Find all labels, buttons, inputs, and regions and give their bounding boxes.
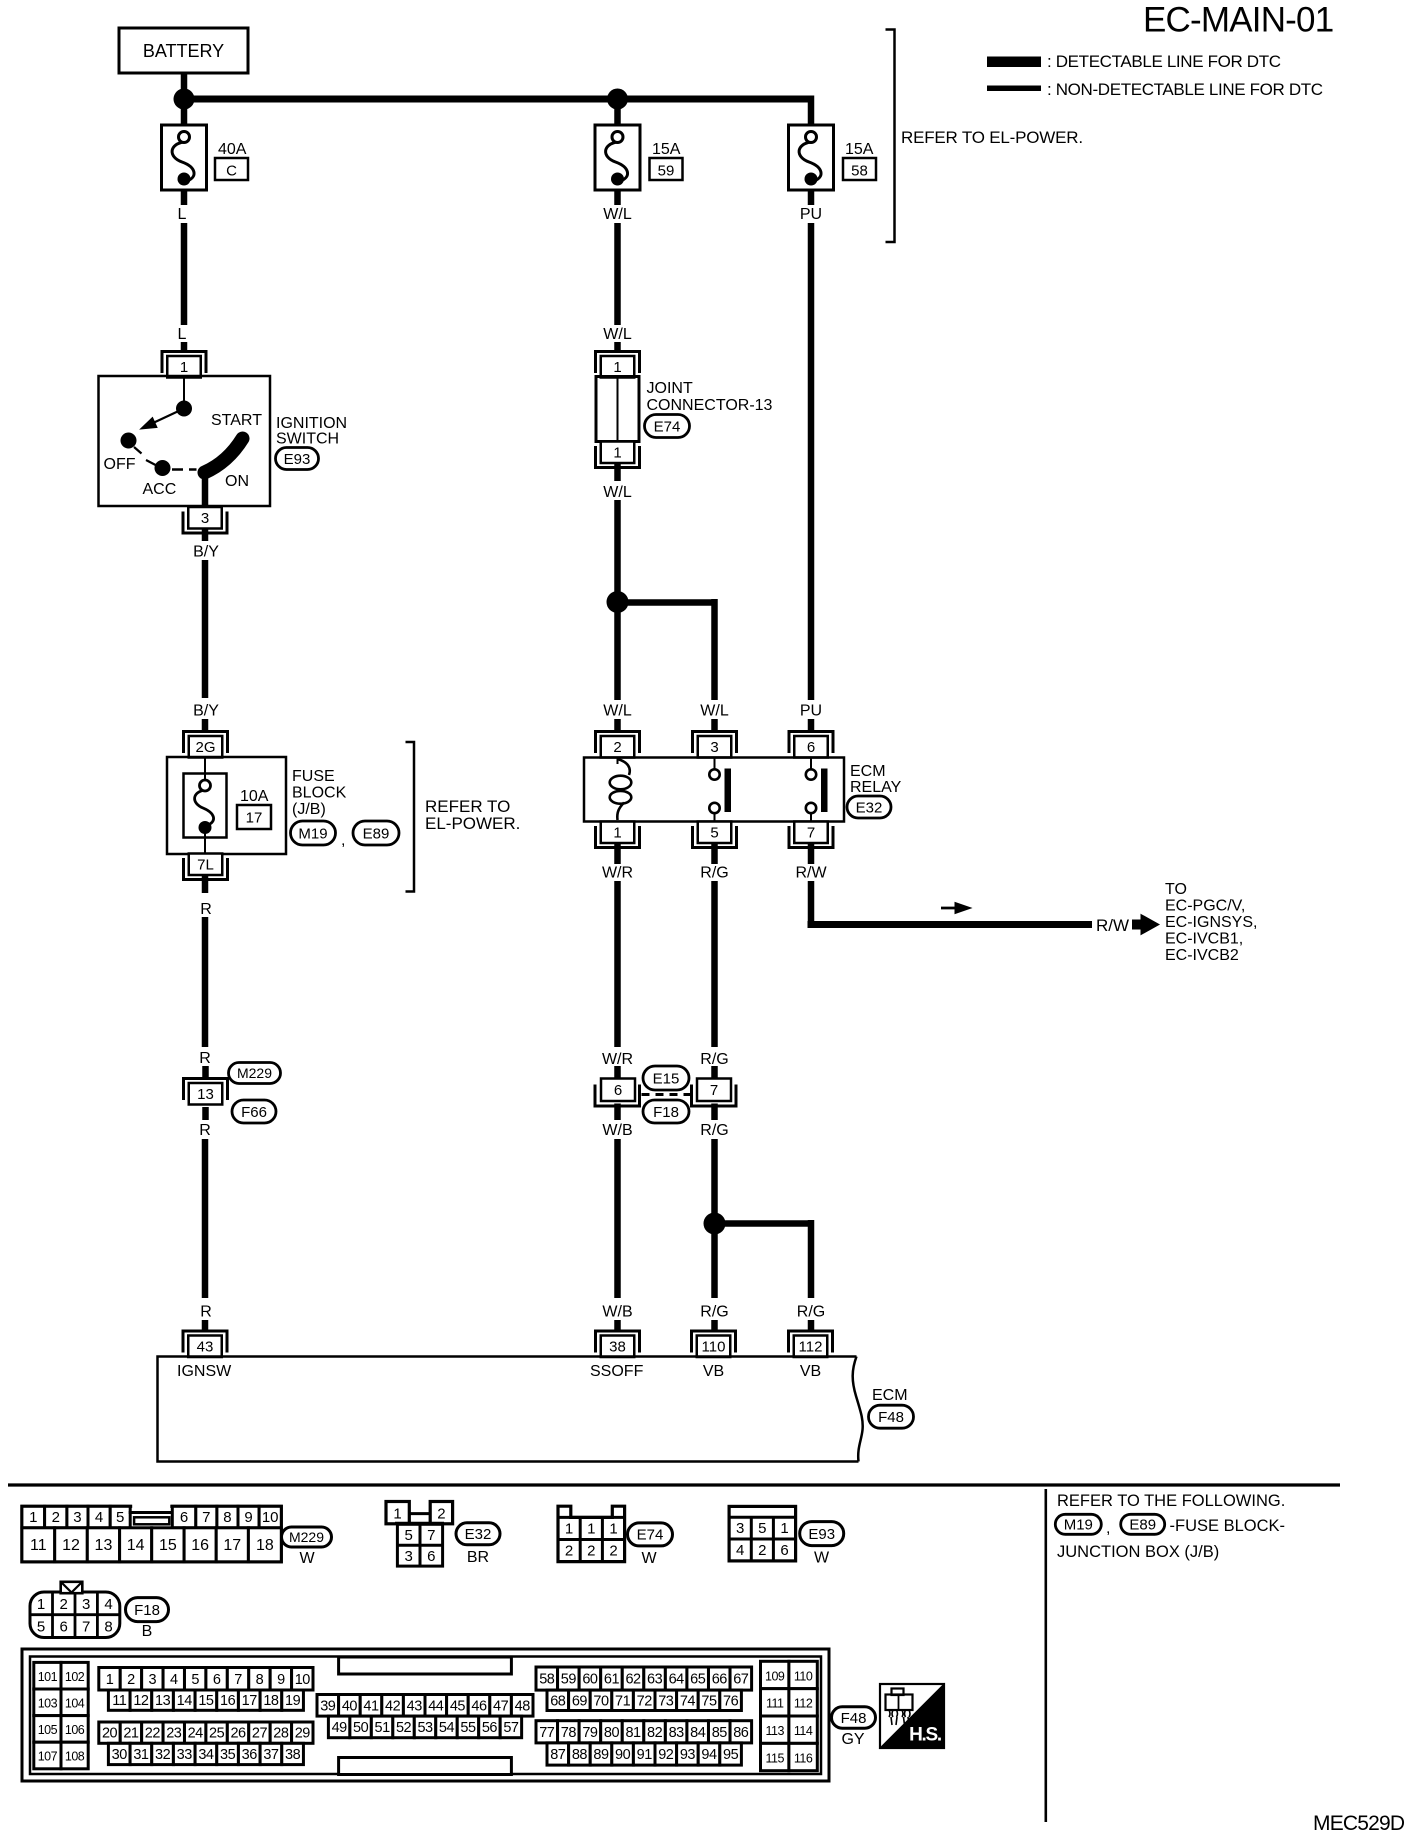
svg-text:SWITCH: SWITCH [276, 431, 339, 448]
svg-text:M19: M19 [298, 825, 327, 842]
svg-text:21: 21 [123, 1726, 139, 1742]
svg-text:14: 14 [177, 1693, 193, 1709]
svg-text:2: 2 [609, 1543, 617, 1560]
svg-text:107: 107 [38, 1750, 58, 1764]
svg-text:BR: BR [467, 1549, 489, 1566]
svg-text:13: 13 [197, 1086, 214, 1103]
svg-text:W: W [814, 1550, 830, 1567]
svg-text:25: 25 [209, 1726, 225, 1742]
svg-text:38: 38 [285, 1747, 301, 1763]
svg-text:16: 16 [220, 1693, 236, 1709]
svg-text:VB: VB [703, 1363, 724, 1380]
svg-text:8: 8 [223, 1509, 231, 1526]
svg-text:W/L: W/L [603, 206, 632, 223]
svg-text:11: 11 [30, 1537, 47, 1554]
svg-text:4: 4 [95, 1509, 103, 1526]
svg-text:EC-MAIN-01: EC-MAIN-01 [1143, 1, 1333, 40]
svg-text:7: 7 [82, 1619, 90, 1636]
svg-text:41: 41 [363, 1698, 379, 1714]
svg-text:W: W [641, 1550, 657, 1567]
svg-text:89: 89 [593, 1747, 609, 1763]
svg-text:78: 78 [561, 1725, 577, 1741]
svg-text:2: 2 [565, 1543, 573, 1560]
svg-text:,: , [1106, 1520, 1110, 1537]
svg-text:43: 43 [407, 1698, 423, 1714]
svg-text:57: 57 [503, 1720, 519, 1736]
svg-text:: DETECTABLE LINE FOR DTC: : DETECTABLE LINE FOR DTC [1047, 52, 1281, 71]
svg-text:1: 1 [613, 359, 621, 376]
svg-text:7L: 7L [197, 857, 214, 874]
svg-text:E74: E74 [654, 418, 681, 435]
svg-text:37: 37 [263, 1747, 279, 1763]
svg-text:91: 91 [637, 1747, 653, 1763]
svg-text:17: 17 [246, 810, 263, 827]
svg-text:55: 55 [460, 1720, 476, 1736]
svg-text:24: 24 [188, 1726, 204, 1742]
svg-text:94: 94 [701, 1747, 717, 1763]
svg-text:83: 83 [669, 1725, 685, 1741]
svg-text:18: 18 [263, 1693, 279, 1709]
svg-text:EC-IVCB2: EC-IVCB2 [1165, 947, 1239, 964]
svg-text:73: 73 [658, 1693, 674, 1709]
svg-text:F48: F48 [878, 1409, 904, 1426]
svg-text:62: 62 [625, 1672, 641, 1688]
svg-text:1: 1 [609, 1521, 617, 1538]
svg-text:1: 1 [565, 1521, 573, 1538]
svg-text:2: 2 [758, 1542, 766, 1559]
svg-text:4: 4 [736, 1542, 744, 1559]
svg-text:29: 29 [295, 1726, 311, 1742]
svg-text:8: 8 [104, 1619, 112, 1636]
svg-text:EL-POWER.: EL-POWER. [425, 814, 520, 833]
svg-text:16: 16 [191, 1537, 209, 1554]
svg-text:1: 1 [780, 1520, 788, 1537]
svg-text:17: 17 [242, 1693, 258, 1709]
svg-text:112: 112 [794, 1697, 813, 1711]
svg-text:70: 70 [593, 1693, 609, 1709]
svg-text:35: 35 [220, 1747, 236, 1763]
svg-text:M19: M19 [1064, 1517, 1093, 1534]
svg-text:L: L [178, 326, 187, 343]
svg-text:67: 67 [733, 1672, 749, 1688]
svg-text:68: 68 [550, 1693, 566, 1709]
svg-text:9: 9 [244, 1509, 252, 1526]
svg-text:-FUSE BLOCK-: -FUSE BLOCK- [1170, 1517, 1286, 1535]
svg-text:43: 43 [197, 1339, 214, 1356]
svg-text:M229: M229 [237, 1065, 272, 1081]
svg-text:7: 7 [234, 1672, 242, 1688]
svg-text:115: 115 [765, 1751, 784, 1765]
svg-text:6: 6 [807, 739, 815, 756]
svg-text:90: 90 [615, 1747, 631, 1763]
svg-text:52: 52 [396, 1720, 412, 1736]
svg-text:58: 58 [851, 163, 868, 180]
svg-text:38: 38 [609, 1339, 626, 1356]
svg-text:: NON-DETECTABLE LINE FOR DTC: : NON-DETECTABLE LINE FOR DTC [1047, 80, 1323, 99]
svg-text:R/W: R/W [795, 865, 827, 882]
svg-text:88: 88 [572, 1747, 588, 1763]
svg-text:R/G: R/G [797, 1304, 825, 1321]
svg-text:19: 19 [285, 1693, 301, 1709]
svg-text:2: 2 [437, 1506, 445, 1523]
svg-text:15: 15 [198, 1693, 214, 1709]
svg-text:75: 75 [701, 1693, 717, 1709]
svg-text:5: 5 [191, 1672, 199, 1688]
svg-text:48: 48 [515, 1698, 531, 1714]
svg-text:R/G: R/G [700, 1122, 728, 1139]
svg-text:61: 61 [604, 1672, 620, 1688]
svg-text:36: 36 [242, 1747, 258, 1763]
svg-text:BATTERY: BATTERY [143, 41, 224, 61]
svg-text:IGNSW: IGNSW [177, 1363, 232, 1380]
svg-text:103: 103 [38, 1697, 58, 1711]
svg-text:5: 5 [758, 1520, 766, 1537]
svg-text:CONNECTOR-13: CONNECTOR-13 [647, 397, 773, 414]
svg-text:,: , [341, 832, 345, 849]
svg-text:R/G: R/G [700, 865, 728, 882]
svg-text:OFF: OFF [104, 456, 136, 473]
svg-text:5: 5 [405, 1527, 413, 1544]
svg-text:105: 105 [38, 1723, 58, 1737]
svg-text:7: 7 [710, 1082, 718, 1099]
svg-text:101: 101 [38, 1670, 58, 1684]
svg-text:14: 14 [127, 1537, 145, 1554]
svg-text:EC-IVCB1,: EC-IVCB1, [1165, 931, 1243, 948]
svg-text:18: 18 [256, 1537, 274, 1554]
svg-text:E93: E93 [808, 1526, 835, 1543]
svg-text:W/B: W/B [602, 1304, 632, 1321]
svg-text:112: 112 [799, 1339, 823, 1356]
svg-text:W/L: W/L [603, 326, 632, 343]
svg-text:2: 2 [52, 1509, 60, 1526]
svg-text:111: 111 [766, 1697, 784, 1711]
svg-text:95: 95 [723, 1747, 739, 1763]
svg-text:F48: F48 [841, 1710, 867, 1727]
svg-text:47: 47 [493, 1698, 509, 1714]
svg-text:B: B [142, 1623, 153, 1640]
svg-text:W/L: W/L [603, 703, 632, 720]
svg-text:W/L: W/L [700, 703, 729, 720]
svg-text:8: 8 [256, 1672, 264, 1688]
svg-text:ECM: ECM [872, 1387, 908, 1404]
svg-text:110: 110 [702, 1339, 726, 1356]
svg-text:REFER TO THE FOLLOWING.: REFER TO THE FOLLOWING. [1057, 1492, 1285, 1510]
svg-text:REFER TO EL-POWER.: REFER TO EL-POWER. [901, 128, 1083, 147]
svg-text:71: 71 [615, 1693, 631, 1709]
svg-text:EC-IGNSYS,: EC-IGNSYS, [1165, 914, 1257, 931]
svg-text:1: 1 [180, 359, 188, 376]
svg-text:B/Y: B/Y [193, 703, 219, 720]
svg-text:3: 3 [82, 1596, 90, 1613]
svg-text:JOINT: JOINT [647, 380, 693, 397]
svg-text:1: 1 [106, 1672, 114, 1688]
svg-text:102: 102 [65, 1670, 85, 1684]
svg-text:50: 50 [353, 1720, 369, 1736]
svg-text:1: 1 [587, 1521, 595, 1538]
svg-text:93: 93 [680, 1747, 696, 1763]
svg-text:65: 65 [690, 1672, 706, 1688]
svg-text:4: 4 [170, 1672, 178, 1688]
svg-text:RELAY: RELAY [850, 779, 902, 796]
svg-text:66: 66 [712, 1672, 728, 1688]
svg-text:59: 59 [561, 1672, 577, 1688]
svg-text:BLOCK: BLOCK [292, 785, 347, 802]
svg-text:E74: E74 [637, 1527, 664, 1544]
svg-text:110: 110 [794, 1669, 813, 1683]
svg-text:E32: E32 [856, 799, 883, 816]
svg-text:6: 6 [780, 1542, 788, 1559]
svg-text:15A: 15A [845, 141, 874, 158]
svg-text:13: 13 [155, 1693, 171, 1709]
svg-text:20: 20 [102, 1726, 118, 1742]
svg-text:51: 51 [375, 1720, 391, 1736]
svg-text:11: 11 [112, 1693, 126, 1709]
svg-text:R/G: R/G [700, 1051, 728, 1068]
svg-text:PU: PU [800, 206, 822, 223]
svg-text:44: 44 [428, 1698, 444, 1714]
svg-text:W/R: W/R [602, 865, 633, 882]
svg-text:39: 39 [320, 1698, 336, 1714]
svg-text:23: 23 [166, 1726, 182, 1742]
svg-text:E32: E32 [465, 1526, 492, 1543]
svg-text:54: 54 [439, 1720, 455, 1736]
svg-text:6: 6 [60, 1619, 68, 1636]
svg-text:START: START [211, 412, 262, 429]
svg-text:6: 6 [213, 1672, 221, 1688]
svg-text:33: 33 [177, 1747, 193, 1763]
svg-text:32: 32 [155, 1747, 171, 1763]
svg-text:3: 3 [73, 1509, 81, 1526]
svg-text:W: W [299, 1550, 315, 1567]
svg-text:R: R [200, 1304, 212, 1321]
svg-text:6: 6 [180, 1509, 188, 1526]
svg-text:80: 80 [604, 1725, 620, 1741]
svg-text:5: 5 [116, 1509, 124, 1526]
svg-text:27: 27 [252, 1726, 268, 1742]
svg-text:E89: E89 [363, 825, 390, 842]
svg-text:4: 4 [104, 1596, 112, 1613]
svg-text:EC-PGC/V,: EC-PGC/V, [1165, 898, 1245, 915]
svg-text:B/Y: B/Y [193, 544, 219, 561]
svg-text:SSOFF: SSOFF [590, 1363, 644, 1380]
svg-text:84: 84 [690, 1725, 706, 1741]
svg-text:5: 5 [710, 825, 718, 842]
svg-text:(J/B): (J/B) [292, 801, 326, 818]
svg-text:E93: E93 [284, 451, 311, 468]
svg-text:6: 6 [614, 1082, 622, 1099]
svg-text:3: 3 [736, 1520, 744, 1537]
svg-text:FUSE: FUSE [292, 768, 335, 785]
svg-text:3: 3 [405, 1548, 413, 1565]
svg-text:13: 13 [95, 1537, 113, 1554]
svg-text:79: 79 [582, 1725, 598, 1741]
svg-text:10A: 10A [240, 788, 269, 805]
svg-text:82: 82 [647, 1725, 663, 1741]
svg-text:104: 104 [65, 1697, 85, 1711]
svg-text:2: 2 [60, 1596, 68, 1613]
svg-text:12: 12 [62, 1537, 80, 1554]
svg-text:7: 7 [807, 825, 815, 842]
svg-text:42: 42 [385, 1698, 401, 1714]
svg-text:R/W: R/W [1096, 916, 1129, 935]
svg-text:1: 1 [37, 1596, 45, 1613]
svg-text:28: 28 [273, 1726, 289, 1742]
svg-text:1: 1 [613, 825, 621, 842]
svg-text:92: 92 [658, 1747, 674, 1763]
svg-text:GY: GY [841, 1731, 864, 1748]
svg-text:R: R [199, 1050, 211, 1067]
svg-text:81: 81 [625, 1725, 641, 1741]
svg-text:46: 46 [471, 1698, 487, 1714]
svg-text:31: 31 [133, 1747, 149, 1763]
svg-text:IGNITION: IGNITION [276, 415, 347, 432]
svg-text:M229: M229 [289, 1529, 324, 1545]
svg-text:R/G: R/G [700, 1304, 728, 1321]
svg-text:45: 45 [450, 1698, 466, 1714]
svg-text:34: 34 [198, 1747, 214, 1763]
svg-text:MEC529D: MEC529D [1313, 1812, 1405, 1835]
svg-text:10: 10 [262, 1509, 279, 1526]
svg-text:113: 113 [765, 1724, 784, 1738]
svg-text:60: 60 [582, 1672, 598, 1688]
svg-text:5: 5 [37, 1619, 45, 1636]
svg-text:114: 114 [794, 1724, 813, 1738]
svg-text:77: 77 [539, 1725, 555, 1741]
svg-text:17: 17 [223, 1537, 241, 1554]
svg-text:F66: F66 [241, 1104, 267, 1121]
svg-text:2G: 2G [195, 739, 215, 756]
svg-text:49: 49 [332, 1720, 348, 1736]
svg-text:1: 1 [613, 445, 621, 462]
svg-text:106: 106 [65, 1723, 85, 1737]
svg-text:1: 1 [29, 1509, 37, 1526]
svg-text:26: 26 [230, 1726, 246, 1742]
svg-text:W/L: W/L [603, 484, 632, 501]
svg-text:15A: 15A [652, 141, 681, 158]
svg-text:15: 15 [159, 1537, 177, 1554]
svg-text:12: 12 [133, 1693, 149, 1709]
svg-text:86: 86 [733, 1725, 749, 1741]
svg-text:VB: VB [800, 1363, 821, 1380]
svg-text:E89: E89 [1129, 1517, 1156, 1534]
svg-text:7: 7 [202, 1509, 210, 1526]
svg-text:30: 30 [112, 1747, 128, 1763]
svg-text:87: 87 [550, 1747, 566, 1763]
svg-text:3: 3 [710, 739, 718, 756]
svg-text:64: 64 [669, 1672, 685, 1688]
svg-text:6: 6 [427, 1548, 435, 1565]
svg-text:53: 53 [417, 1720, 433, 1736]
svg-text:TO: TO [1165, 881, 1187, 898]
svg-text:ON: ON [225, 473, 249, 490]
svg-text:40: 40 [342, 1698, 358, 1714]
svg-text:E15: E15 [653, 1070, 680, 1087]
svg-text:2: 2 [613, 739, 621, 756]
svg-text:108: 108 [65, 1750, 85, 1764]
svg-text:ACC: ACC [143, 481, 177, 498]
svg-text:H.S.: H.S. [909, 1725, 941, 1746]
svg-text:PU: PU [800, 703, 822, 720]
svg-text:2: 2 [127, 1672, 135, 1688]
svg-text:58: 58 [539, 1672, 555, 1688]
svg-text:69: 69 [572, 1693, 588, 1709]
svg-text:74: 74 [680, 1693, 696, 1709]
svg-text:R: R [199, 1122, 211, 1139]
svg-text:116: 116 [794, 1751, 813, 1765]
svg-text:JUNCTION BOX (J/B): JUNCTION BOX (J/B) [1057, 1543, 1219, 1561]
svg-text:72: 72 [637, 1693, 653, 1709]
svg-text:10: 10 [295, 1672, 311, 1688]
svg-text:109: 109 [765, 1669, 785, 1683]
svg-text:L: L [178, 206, 187, 223]
svg-text:C: C [226, 163, 237, 180]
svg-text:85: 85 [712, 1725, 728, 1741]
svg-text:1: 1 [393, 1506, 401, 1523]
svg-text:59: 59 [658, 163, 675, 180]
svg-text:2: 2 [587, 1543, 595, 1560]
svg-text:56: 56 [482, 1720, 498, 1736]
svg-text:7: 7 [427, 1527, 435, 1544]
svg-text:F18: F18 [134, 1602, 160, 1619]
svg-text:ECM: ECM [850, 763, 886, 780]
svg-text:76: 76 [723, 1693, 739, 1709]
svg-text:40A: 40A [218, 141, 247, 158]
svg-text:3: 3 [149, 1672, 157, 1688]
svg-text:3: 3 [201, 510, 209, 527]
svg-text:F18: F18 [653, 1104, 679, 1121]
svg-text:63: 63 [647, 1672, 663, 1688]
svg-text:22: 22 [145, 1726, 161, 1742]
svg-text:W/R: W/R [602, 1051, 633, 1068]
svg-text:9: 9 [277, 1672, 285, 1688]
svg-text:W/B: W/B [602, 1122, 632, 1139]
svg-text:R: R [200, 901, 212, 918]
